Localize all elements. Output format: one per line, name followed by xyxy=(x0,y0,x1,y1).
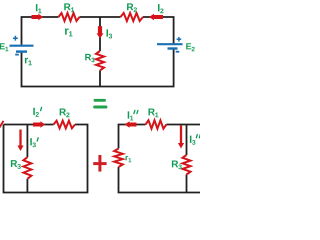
resistor R3 (middle branch) xyxy=(96,51,104,70)
current arrow I3 xyxy=(98,26,102,33)
label r1 under R1 xyxy=(65,28,72,36)
equals sign xyxy=(95,99,105,102)
wire branch of R3 (bottom-right) xyxy=(186,125,188,156)
prime tick of I3' xyxy=(37,138,38,141)
wire top circuit: bottom rail xyxy=(22,49,174,86)
label I3' xyxy=(30,138,36,147)
resistor R1 (top) xyxy=(59,13,80,21)
current arrow I2' xyxy=(33,123,40,127)
current arrow I2 xyxy=(154,15,163,19)
plus sign between sub-circuits xyxy=(93,162,106,165)
resistor r1 (bottom-right, internal resistance of E1) xyxy=(114,149,123,168)
wire middle branch (node at x=100) xyxy=(99,17,101,51)
current arrow I3' xyxy=(19,130,21,146)
label I1'' xyxy=(128,111,134,120)
label E2 xyxy=(186,43,195,51)
label I3'' xyxy=(190,136,196,145)
label R3 (top circuit) xyxy=(85,54,94,62)
label R1 (bottom-right) xyxy=(148,109,158,118)
label R3 (bottom-right) xyxy=(172,161,182,170)
resistor R3 (bottom-right) xyxy=(183,155,191,175)
wire branch of R3 (bottom-left) xyxy=(26,125,28,158)
battery E2 (cell plates) xyxy=(157,43,183,45)
resistor R1 (bottom-right) xyxy=(146,120,167,128)
label r1 (bottom-right) xyxy=(126,156,132,162)
prime tick of I2' xyxy=(41,107,42,110)
label I2 xyxy=(158,4,164,13)
current arrow I1'' xyxy=(130,123,137,127)
label I1 xyxy=(36,4,42,13)
label I3 xyxy=(107,29,113,38)
E2 minus mark xyxy=(176,51,180,53)
label R2 (bottom-left) xyxy=(60,109,70,118)
wire top circuit: top-left segment xyxy=(22,17,59,45)
label R2 xyxy=(127,3,137,12)
wire top circuit: top-middle segment xyxy=(80,16,121,18)
label R3 (bottom-left) xyxy=(11,160,21,169)
E2 plus mark xyxy=(177,37,182,42)
E1 minus mark xyxy=(15,54,19,56)
prime ticks of I1'' xyxy=(134,110,138,113)
prime ticks of I3'' xyxy=(196,135,200,138)
battery E1 (cell plates) xyxy=(10,45,34,47)
label R1 xyxy=(64,3,74,12)
cut-off resistor remnant at left edge xyxy=(0,121,4,128)
label r1 (E1 internal resistance) xyxy=(25,58,32,65)
E1 plus mark xyxy=(13,36,18,41)
label E1 xyxy=(0,43,8,51)
current arrow I3'' xyxy=(180,126,182,144)
wire bottom-right circuit outline xyxy=(119,125,201,193)
wire top circuit: top-right segment xyxy=(143,17,174,44)
resistor R2 (top) xyxy=(121,13,143,21)
resistor R2 (bottom-left) xyxy=(54,121,76,129)
current arrow I1 xyxy=(32,15,39,19)
wire bottom-left circuit outline xyxy=(4,125,88,193)
label I2' xyxy=(33,108,39,117)
resistor R3 (bottom-left) xyxy=(23,157,31,179)
